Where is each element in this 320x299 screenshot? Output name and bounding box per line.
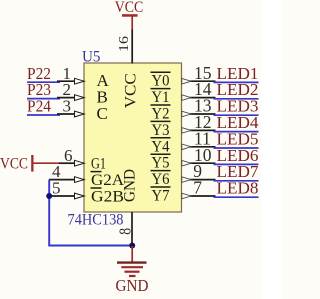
svg-text:VCC: VCC	[115, 0, 144, 16]
svg-text:8: 8	[115, 228, 134, 235]
wire net P24	[27, 114, 60, 116]
wire net LED8	[214, 196, 259, 198]
svg-text:Y0: Y0	[152, 73, 170, 90]
svg-text:Y1: Y1	[152, 89, 170, 106]
pin 7 (Y7 output)	[190, 195, 216, 197]
wire net LED7	[214, 180, 259, 182]
power VCC (left) bar symbol	[31, 155, 33, 172]
ground symbol bars	[117, 261, 147, 263]
svg-text:74HC138: 74HC138	[68, 212, 124, 229]
svg-text:VCC: VCC	[0, 155, 28, 172]
svg-text:GND: GND	[122, 169, 139, 202]
svg-text:Y4: Y4	[152, 138, 170, 155]
wire net LED3	[214, 114, 259, 116]
svg-text:6: 6	[64, 146, 73, 165]
pin 11 (Y4 output)	[190, 146, 216, 148]
pin 13 (Y2 output)	[190, 113, 216, 115]
svg-text:LED8: LED8	[217, 179, 259, 198]
pin 12 (Y3 output)	[190, 129, 216, 131]
wire pin 8 to ground	[131, 212, 133, 247]
power VCC (top) stub	[131, 16, 133, 30]
power VCC (left) stub	[33, 162, 60, 164]
wire net LED2	[214, 98, 259, 100]
svg-text:P24: P24	[27, 97, 51, 116]
wire enable bus: bottom horizontal to GND node	[48, 245, 132, 247]
pin 15 (Y0 output)	[190, 80, 216, 82]
wire net P22	[27, 81, 60, 83]
svg-text:7: 7	[193, 178, 202, 198]
svg-text:Y3: Y3	[152, 122, 170, 139]
wire VCC to pin 16	[131, 30, 133, 64]
pin 10 (Y5 output)	[190, 162, 216, 164]
wire net LED1	[214, 81, 259, 83]
svg-text:Y6: Y6	[152, 171, 170, 188]
svg-text:G1: G1	[91, 156, 106, 173]
svg-text:C: C	[97, 104, 108, 123]
wire net LED4	[214, 131, 259, 133]
wire net P23	[27, 98, 60, 100]
pin 6 (G1 enable)	[59, 162, 75, 164]
pin 1 (P22 input)	[57, 80, 75, 82]
junction at GND node	[129, 243, 135, 249]
svg-text:Y2: Y2	[152, 106, 170, 123]
svg-text:GND: GND	[116, 276, 149, 295]
svg-text:Y7: Y7	[152, 188, 170, 205]
ground symbol stub	[131, 246, 133, 262]
svg-text:VCC: VCC	[123, 73, 140, 108]
pin 2 (P23 input)	[57, 97, 75, 99]
IC U5 body (74HC138)	[84, 63, 182, 212]
svg-text:5: 5	[52, 179, 61, 198]
power VCC (top) bar symbol	[122, 14, 138, 17]
svg-text:U5: U5	[82, 49, 101, 66]
svg-text:G2B: G2B	[91, 189, 124, 206]
svg-text:16: 16	[116, 36, 131, 52]
wire net LED6	[214, 163, 259, 165]
svg-text:G2A: G2A	[91, 172, 124, 189]
pin 14 (Y1 output)	[190, 97, 216, 99]
svg-text:Y5: Y5	[152, 155, 170, 172]
svg-text:3: 3	[63, 97, 72, 116]
pin 5 (G2B enable)	[49, 195, 75, 197]
junction at pin 5	[46, 193, 52, 199]
wire net LED5	[214, 147, 259, 149]
pin 9 (Y6 output)	[190, 179, 216, 181]
pin 3 (P24 input)	[57, 113, 75, 115]
pin 4 (G2A enable)	[49, 179, 75, 181]
wire enable bus: vertical down-left	[48, 180, 50, 246]
